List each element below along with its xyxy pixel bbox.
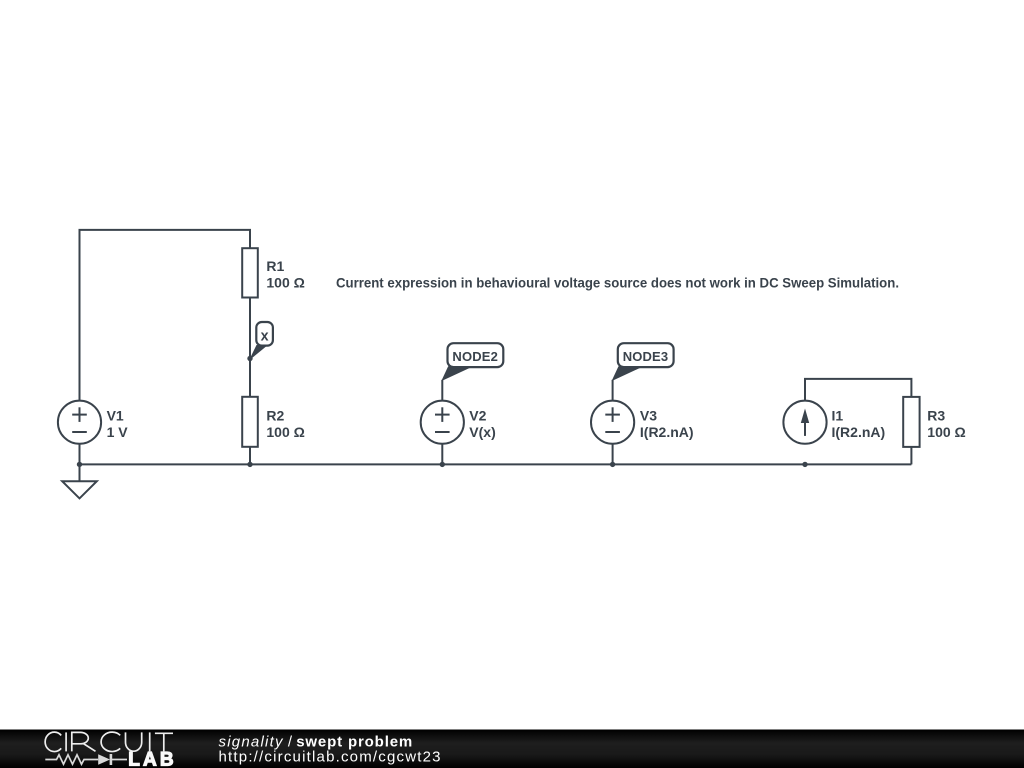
wire V3 bottom	[612, 444, 614, 465]
wire R2 bottom	[249, 447, 251, 465]
voltage source V1	[58, 401, 101, 444]
svg-text:V3: V3	[640, 407, 657, 423]
svg-text:100 Ω: 100 Ω	[266, 275, 304, 291]
svg-text:http://circuitlab.com/cgcwt23: http://circuitlab.com/cgcwt23	[219, 749, 441, 766]
svg-text:NODE2: NODE2	[452, 349, 497, 364]
resistor R2	[242, 397, 258, 447]
resistor R3	[903, 397, 919, 447]
junction at I1/rail	[802, 462, 807, 467]
svg-text:R2: R2	[266, 407, 284, 423]
wire ground stem	[79, 464, 81, 481]
svg-text:V(x): V(x)	[469, 424, 495, 440]
svg-text:100 Ω: 100 Ω	[266, 424, 304, 440]
wire V1 bottom	[79, 444, 81, 465]
svg-text:I(R2.nA): I(R2.nA)	[640, 424, 694, 440]
svg-text:R1: R1	[266, 258, 284, 274]
wire V3 top	[612, 380, 614, 401]
node x junction	[247, 356, 252, 361]
svg-text:LAB: LAB	[128, 749, 176, 768]
node NODE3 flag	[613, 343, 674, 380]
wire bottom rail	[80, 463, 912, 465]
svg-text:I(R2.nA): I(R2.nA)	[832, 424, 886, 440]
wire top loop V1 to R1	[80, 230, 251, 401]
voltage source V3	[591, 401, 634, 444]
current source I1	[783, 401, 826, 444]
svg-text:V1: V1	[107, 407, 124, 423]
junction at V3/rail	[610, 462, 615, 467]
junction at R2/rail	[247, 462, 252, 467]
wire R3 bottom	[910, 447, 912, 465]
svg-text:V2: V2	[469, 407, 486, 423]
CircuitLab logo resistor-diode glyph	[45, 754, 127, 765]
junction at V2/rail	[440, 462, 445, 467]
svg-text:I1: I1	[832, 407, 844, 423]
voltage source V2	[421, 401, 464, 444]
node NODE2 flag	[442, 343, 503, 380]
wire I1 top loop to R3	[805, 379, 911, 401]
svg-text:R3: R3	[927, 407, 945, 423]
svg-text:Current expression in behaviou: Current expression in behavioural voltag…	[336, 274, 899, 290]
svg-text:1 V: 1 V	[107, 424, 129, 440]
junction at V1/rail	[77, 462, 82, 467]
wire V2 bottom	[441, 444, 443, 465]
wire R1 to R2	[249, 298, 251, 397]
ground	[62, 481, 97, 498]
resistor R1	[242, 248, 258, 297]
wire V2 top	[441, 380, 443, 401]
svg-text:x: x	[261, 328, 269, 344]
node x flag	[250, 322, 273, 359]
footer bar	[0, 730, 1024, 768]
CircuitLab logo wordmark CIRCUIT	[45, 732, 173, 751]
svg-text:NODE3: NODE3	[623, 349, 668, 364]
svg-text:100 Ω: 100 Ω	[927, 424, 965, 440]
